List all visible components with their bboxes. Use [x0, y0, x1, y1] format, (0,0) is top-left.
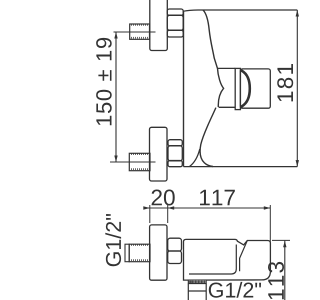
arrow down 150±19 — [114, 156, 117, 163]
dimension line 181 — [296, 10, 298, 167]
label 113 — [268, 262, 284, 299]
bottom inlet hex nut — [168, 140, 182, 167]
bottom view: hex nut — [168, 238, 182, 263]
top wall flange — [150, 0, 168, 51]
top inlet threaded stub — [130, 24, 150, 39]
bottom inlet centerline — [110, 161, 156, 163]
label 20 — [152, 190, 175, 206]
handle knob arc — [241, 71, 250, 107]
extension line at 270.3 — [269, 205, 271, 242]
bottom wall flange — [150, 127, 168, 181]
dimension line 20 / 117 — [145, 207, 271, 209]
bottom view: outlet pipe — [188, 284, 206, 300]
bottom view: nose inner slant — [240, 241, 248, 272]
bottom view: body outline — [184, 239, 271, 280]
bottom view: outlet boss with threads — [188, 280, 206, 284]
label G1/2 left — [105, 214, 121, 266]
dimension line 150±19 — [115, 32, 117, 162]
handle bottom line — [219, 106, 236, 108]
label 150 +/- 19 — [96, 38, 112, 125]
bottom view: wall flange — [150, 225, 167, 280]
bottom inlet threaded stub — [129, 153, 150, 170]
dimension line 113 — [284, 241, 286, 300]
arrow up 181 — [296, 10, 299, 17]
arrow up 113 — [283, 241, 286, 248]
arrow up 150±19 — [114, 32, 117, 39]
body bottom edge + 181 extension line — [184, 166, 298, 168]
arrow down 181 — [296, 160, 299, 167]
top hex nut — [167, 9, 183, 37]
body inner spout curve — [190, 149, 200, 167]
bottom view: body inner block edge — [189, 245, 236, 275]
top inlet centerline — [114, 31, 156, 33]
faucet body left edge — [183, 11, 185, 167]
arrows at 167.7 — [168, 206, 175, 209]
arrow at 270.3 — [264, 206, 271, 209]
extension line at 167.7 — [167, 205, 169, 223]
faucet body right profile — [200, 10, 224, 167]
faucet body top edge + 181 extension line — [184, 10, 298, 11]
extension line 113 top — [272, 239, 290, 241]
bottom view: threaded stub with end cap — [125, 244, 150, 262]
label 117 — [200, 190, 235, 206]
handle stem — [235, 68, 240, 109]
extension line at 149.8 — [149, 205, 151, 223]
label 181 — [277, 64, 293, 101]
label G1/2 bottom — [209, 282, 261, 298]
arrow right-tip at 149.8 (outside) — [143, 206, 150, 209]
handle top line — [218, 67, 236, 69]
handle knob — [240, 69, 270, 108]
